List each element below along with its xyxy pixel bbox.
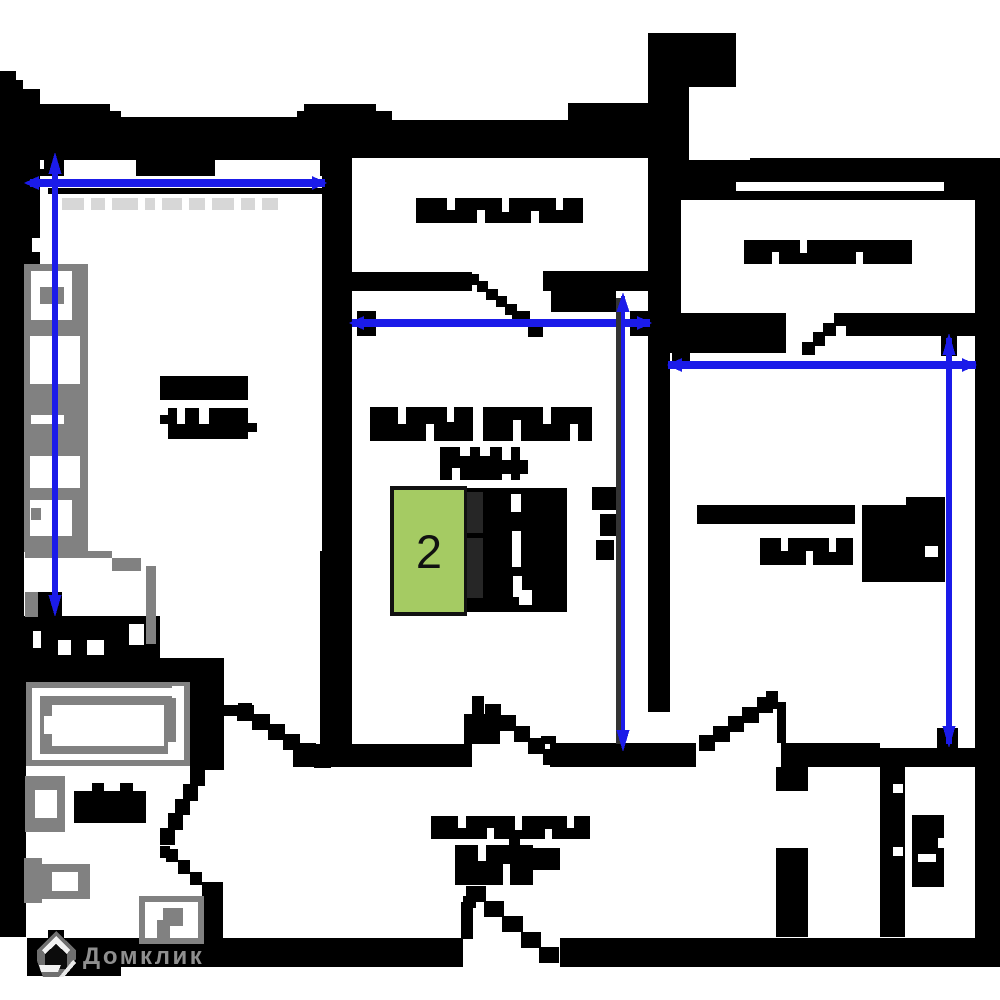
- dim line middle room vertical: [621, 296, 625, 746]
- left outer wall: [0, 117, 40, 270]
- washing machine blob (black): [74, 791, 146, 823]
- wall row below band with window notches: [0, 158, 330, 176]
- middle room label line 1: [370, 407, 473, 441]
- right section dividing wall with door notch: [670, 313, 786, 353]
- door symbol square (gray): [139, 896, 204, 944]
- top wall band, middle section: [330, 120, 648, 158]
- right outer wall: [975, 158, 1000, 940]
- dimension line stubs (black): [38, 592, 62, 617]
- dim line middle room horizontal: [352, 319, 650, 327]
- callout pointer leaf (middle): [467, 274, 479, 285]
- living room label: [160, 376, 248, 400]
- dim line living room horizontal: [30, 179, 325, 187]
- hall label: [431, 816, 590, 839]
- Domclick watermark house icon: [37, 931, 76, 977]
- hall top wall right segment: [781, 743, 880, 767]
- top-right loggia label: [744, 240, 912, 264]
- wall between kitchen-living room and middle room: [322, 158, 352, 551]
- bed furniture: [464, 488, 567, 612]
- dark sliver left of mid vertical dim line: [616, 298, 621, 744]
- left lower outer wall: [0, 683, 26, 937]
- bottom outer wall left: [27, 938, 463, 967]
- text row under living room top wall: [62, 198, 84, 210]
- central shaft wall: [648, 87, 689, 161]
- hall top wall middle segment: [550, 743, 696, 767]
- top wall line of living room: [48, 188, 322, 194]
- water heater symbol: [912, 815, 944, 887]
- window slit in right top wall: [736, 182, 944, 191]
- bathtub (gray): [26, 682, 190, 766]
- top wall band, left section: [0, 117, 330, 158]
- kitchen bottom wall: [0, 658, 224, 683]
- middle room label line 2: [440, 447, 502, 480]
- bedroom label: [760, 538, 853, 565]
- bathroom right wall: [190, 663, 224, 770]
- dim line bedroom horizontal: [668, 361, 976, 369]
- right section door leaf: [699, 735, 715, 751]
- svg-text:Домклик: Домклик: [83, 943, 204, 970]
- hall upper wall bars: [697, 505, 855, 524]
- bathroom door leaf diagonal: [190, 769, 205, 786]
- nightstand strip: [592, 487, 618, 510]
- toilet (gray): [24, 858, 42, 903]
- outer top-left stepped wall: [0, 71, 16, 90]
- bathroom sink (gray): [25, 776, 65, 832]
- kitchen counters (gray): [24, 264, 88, 552]
- dim line living room vertical: [52, 170, 58, 600]
- svg-text:2: 2: [416, 525, 442, 578]
- loggia label (middle): [416, 198, 583, 223]
- top wall band, right section: [750, 158, 1000, 200]
- loggia/room dividing wall (middle): [352, 272, 472, 291]
- entrance door V: [461, 902, 473, 939]
- green unit badge: [390, 486, 467, 616]
- kitchen door leaf diagonal: [238, 703, 252, 718]
- wardrobe dividing wall: [880, 767, 905, 937]
- kitchen window zone w/ white squares: [0, 616, 160, 658]
- top wall band right of shaft: [648, 160, 750, 200]
- bottom outer wall right: [560, 938, 1000, 967]
- wardrobe room left wall: [776, 767, 808, 791]
- counter outline L (gray): [25, 551, 112, 558]
- ventilation shaft block top: [648, 33, 736, 87]
- middle room door leaf: [464, 714, 500, 744]
- dim line bedroom vertical: [946, 338, 952, 744]
- hall top wall left segment: [293, 744, 472, 767]
